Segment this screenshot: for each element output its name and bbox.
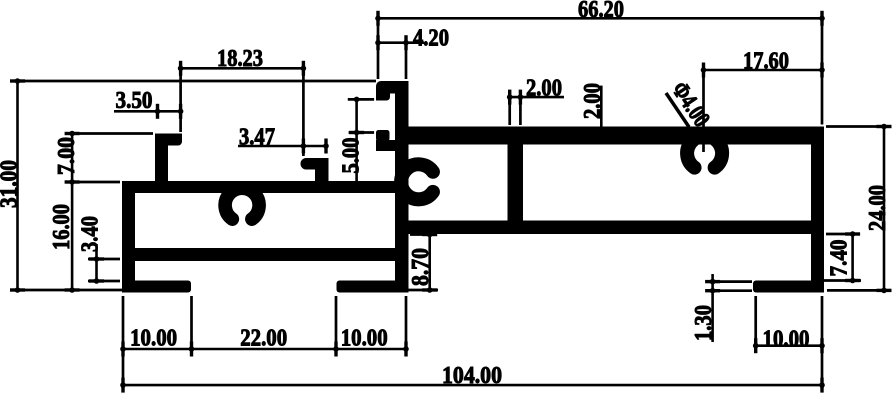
profile: left box inner bottom wall — [130, 248, 395, 261]
svg-text:10.00: 10.00 — [130, 326, 177, 352]
svg-text:1.30: 1.30 — [691, 305, 717, 341]
dim line 4.20 — [378, 41, 424, 44]
tick 3.40 at y=259 — [89, 257, 104, 260]
extension line bottom x=406 — [405, 296, 408, 353]
extension line 7.40/24.00 bottom — [824, 279, 861, 282]
svg-text:16.00: 16.00 — [49, 204, 75, 250]
tick 3.50 at x=157.5 — [156, 104, 159, 119]
tick 5.00 at y=130 — [349, 131, 364, 134]
tick 1.30 at y=281.6 — [705, 280, 720, 283]
extension line 17.60 left + hole leader — [702, 63, 705, 152]
extension line 1.30 top — [714, 280, 752, 283]
tick 8.70 at y=234.5 — [422, 233, 437, 236]
svg-text:4.20: 4.20 — [413, 26, 449, 52]
dim line 3.47 — [238, 145, 326, 148]
extension line 18.23 left — [179, 61, 182, 132]
extension line 8.70 bottom — [398, 289, 438, 292]
tick 3.50 at x=180.6 — [179, 104, 182, 119]
profile: right box top wall — [408, 127, 824, 145]
tick 3.47 at x=326 — [324, 139, 327, 154]
extension line 7.00/16.00 mid — [66, 181, 120, 184]
screw boss C in left box — [225, 188, 259, 219]
tick 4.20 at x=406 — [404, 35, 407, 50]
tick 31.00 at y=81 — [10, 79, 25, 82]
svg-text:104.00: 104.00 — [442, 363, 502, 389]
extension line 7.00 top — [66, 132, 153, 135]
dim line 8.70 — [428, 235, 431, 291]
profile: right box right wall — [811, 127, 824, 293]
tick 66.20 at x=378 — [376, 11, 379, 26]
profile: right box bottom wall — [408, 221, 824, 235]
profile: right foot of left box — [337, 281, 409, 293]
profile: right hook stem — [315, 168, 329, 182]
profile: left bottom foot — [122, 281, 191, 293]
tick 17.60 at x=822 — [820, 63, 823, 78]
tick chainBL at x=191.5 — [190, 342, 193, 357]
tick 31.00 at y=290 — [10, 288, 25, 291]
tick 3.40 at y=281 — [89, 279, 104, 282]
dim line 24.00 — [883, 127, 886, 291]
extension line 4.20 right — [405, 36, 408, 79]
profile: middle vertical bar — [395, 81, 409, 293]
dim line 104.00 — [123, 384, 822, 387]
extension line 2.00 right — [519, 90, 522, 125]
svg-text:66.20: 66.20 — [578, 0, 624, 23]
extension line 5.00 bottom — [349, 131, 375, 134]
profile: right box internal wall — [508, 144, 524, 222]
svg-text:24.00: 24.00 — [865, 185, 891, 231]
svg-text:10.00: 10.00 — [763, 327, 810, 353]
svg-text:3.40: 3.40 — [78, 216, 104, 252]
tick chainL at y=290 — [65, 288, 80, 291]
svg-text:5.00: 5.00 — [339, 138, 365, 174]
tick 4.20 at x=378 — [376, 35, 379, 50]
dim line 18.23 — [181, 67, 304, 70]
tick 10br at x=755.7 — [754, 338, 757, 353]
svg-text:18.23: 18.23 — [217, 46, 263, 72]
tick chainBL at x=123 — [121, 342, 124, 357]
extension line 3.40 bottom — [88, 280, 120, 283]
tick 10br at x=822 — [820, 338, 823, 353]
dim line chain 7.00/16.00 — [71, 134, 74, 291]
tick 7.40 at y=283 — [845, 279, 860, 282]
profile: right hook flange — [301, 158, 329, 170]
dim line 5.00 — [355, 99, 358, 182]
svg-text:7.40: 7.40 — [827, 240, 853, 277]
tick chainL at y=133.5 — [65, 132, 80, 135]
dim line bottom chain 10/22/10 — [123, 348, 406, 351]
extension line 31.00/16.00 bottom — [10, 289, 122, 292]
svg-text:2.00: 2.00 — [580, 83, 606, 119]
svg-text:3.50: 3.50 — [116, 88, 153, 114]
tick 18.23 at x=180.6 — [179, 61, 182, 76]
extension line 5.00 top — [348, 98, 374, 101]
svg-text:22.00: 22.00 — [240, 326, 287, 352]
extension line bottom right x=822 — [821, 296, 824, 390]
tick 24.00 at y=283 — [877, 289, 892, 292]
tick 7.40 at y=234 — [845, 232, 860, 235]
extension line 3.40 top — [88, 258, 120, 261]
profile: lower left flange lip — [376, 130, 390, 141]
extension line 2.00 left — [508, 90, 511, 125]
leader line diagonal for phi4.00 — [666, 93, 689, 127]
extension line 31.00 top (long) — [10, 80, 376, 83]
extension line bottom left chain x=123 — [122, 296, 125, 390]
dim line 3.50 — [114, 110, 181, 113]
screw boss C in right box — [687, 136, 722, 168]
dim line 2.00 vertical — [600, 86, 603, 127]
extension line bottom x=191.5 — [190, 296, 193, 353]
extension line 1.30 bottom — [714, 289, 752, 292]
profile: upper left lip under cap — [376, 93, 390, 101]
svg-text:2.00: 2.00 — [526, 76, 562, 102]
dim line 2.00 horizontal — [510, 96, 564, 99]
extension line 66.20 left / 4.20 left — [377, 18, 380, 79]
extension line 8.70 top — [410, 233, 437, 236]
extension line 7.40 top — [826, 233, 860, 236]
tick 104 at x=123 — [121, 378, 124, 393]
extension line bottom x=336 — [335, 296, 338, 353]
tick 17.60 at x=703.5 — [702, 63, 705, 78]
tick 104 at x=822 — [820, 378, 823, 393]
tick 5.00 at y=100.5 — [354, 97, 360, 103]
tick 2.00h at x=520.4 — [519, 90, 522, 105]
extension line 24.00 top — [826, 125, 890, 128]
svg-text:31.00: 31.00 — [0, 160, 23, 208]
extension line 66.20 right — [821, 18, 824, 124]
tick 8.70 at y=290 — [422, 288, 437, 291]
profile: left box top wall — [122, 181, 395, 193]
profile: lower left flange base — [376, 140, 409, 151]
tick 66.20 at x=822 — [820, 11, 823, 26]
tick chainBL at x=406 — [404, 342, 407, 357]
svg-text:3.47: 3.47 — [239, 125, 275, 151]
profile: left box left wall — [122, 181, 135, 293]
dim line bottom right 10.00 — [756, 344, 822, 347]
dim line 66.20 — [378, 17, 822, 20]
tick 24.00 at y=126.5 — [877, 125, 892, 128]
profile: top cap of middle bar — [376, 81, 409, 94]
svg-text:7.00: 7.00 — [54, 137, 80, 175]
tick 3.47 at x=303.4 — [302, 139, 305, 154]
svg-text:17.60: 17.60 — [743, 49, 789, 75]
tick 2.00h at x=509.7 — [508, 90, 511, 105]
extension line bottom right x=755.7 — [754, 296, 757, 350]
profile: left hook stem — [155, 134, 168, 182]
dim line 3.40 — [95, 244, 98, 281]
dim line 1.30 — [711, 274, 714, 342]
profile: left hook flange — [155, 134, 182, 146]
screw boss C on middle bar — [401, 164, 433, 199]
extension line 18.23 right / 3.47 left — [302, 61, 305, 156]
dim line 7.40 — [851, 234, 854, 281]
tick chainBL at x=336 — [334, 342, 337, 357]
tick chainL at y=182 — [65, 180, 80, 183]
tick 18.23 at x=303.4 — [302, 61, 305, 76]
dim line 17.60 — [704, 69, 823, 72]
profile: bottom right foot — [753, 281, 824, 293]
svg-text:10.00: 10.00 — [341, 326, 388, 352]
dim line 31.00 — [16, 81, 19, 290]
tick 1.30 at y=290.7 — [705, 289, 720, 292]
svg-text:8.70: 8.70 — [408, 248, 434, 286]
